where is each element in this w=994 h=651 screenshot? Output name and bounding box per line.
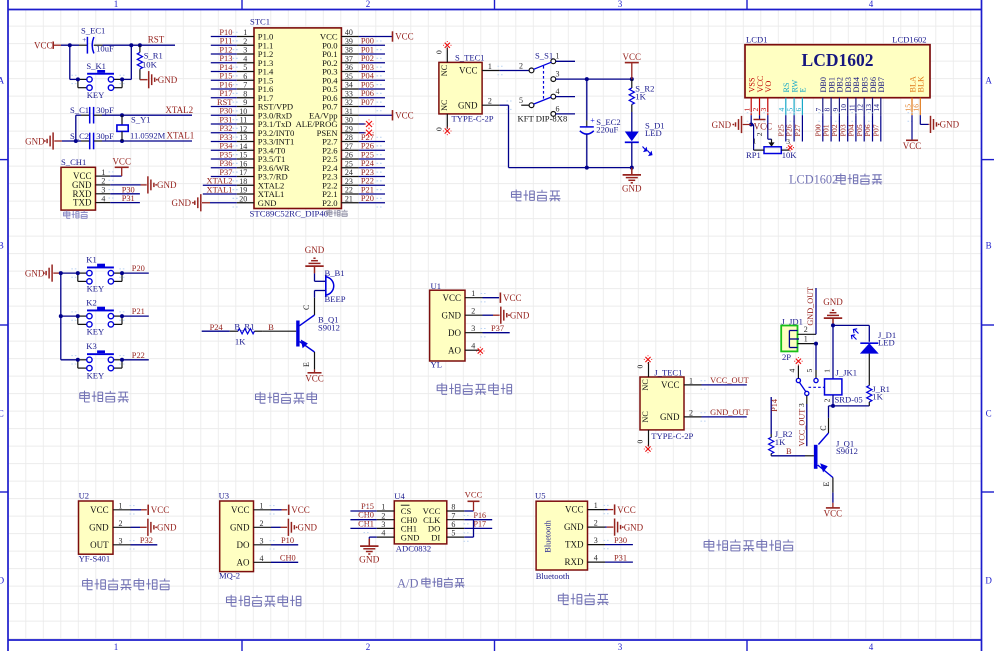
svg-text:VCC: VCC [754, 122, 773, 132]
svg-text:GND: GND [940, 120, 960, 130]
svg-text:21: 21 [345, 194, 353, 203]
svg-text:VCC: VCC [395, 32, 414, 42]
svg-text:LCD1602: LCD1602 [789, 173, 838, 187]
svg-text:0: 0 [636, 365, 645, 369]
svg-text:S9012: S9012 [318, 322, 340, 332]
svg-text:2: 2 [823, 398, 832, 402]
svg-text:20: 20 [239, 194, 247, 203]
svg-text:37: 37 [345, 54, 353, 63]
svg-text:220uF: 220uF [596, 125, 618, 135]
svg-text:GND: GND [298, 523, 318, 533]
svg-text:E: E [822, 482, 831, 487]
svg-text:A: A [985, 75, 992, 85]
svg-text:26: 26 [345, 151, 353, 160]
svg-text:17: 17 [239, 168, 247, 177]
svg-text:GND: GND [458, 100, 478, 110]
svg-text:P30: P30 [219, 107, 232, 116]
svg-text:VCC: VCC [903, 141, 922, 151]
svg-text:9: 9 [243, 98, 247, 107]
svg-text:6: 6 [556, 104, 560, 113]
svg-text:3: 3 [243, 46, 247, 55]
svg-text:P13: P13 [219, 54, 232, 63]
svg-text:P07: P07 [871, 124, 880, 136]
svg-text:D: D [0, 575, 5, 585]
svg-text:TXD: TXD [565, 540, 584, 550]
svg-text:5: 5 [805, 369, 814, 373]
svg-text:2: 2 [243, 37, 247, 46]
svg-text:1: 1 [471, 289, 475, 298]
svg-text:XTAL1: XTAL1 [167, 130, 195, 140]
svg-text:GND: GND [305, 245, 325, 255]
svg-text:P00: P00 [361, 37, 374, 46]
svg-text:RST: RST [217, 98, 232, 107]
svg-text:P31: P31 [219, 115, 232, 124]
svg-text:2: 2 [755, 132, 764, 136]
svg-text:3: 3 [786, 137, 790, 146]
svg-text:0: 0 [435, 50, 444, 54]
svg-text:P37: P37 [219, 168, 232, 177]
svg-text:GND: GND [823, 297, 843, 307]
svg-text:7: 7 [243, 81, 247, 90]
svg-text:1: 1 [823, 369, 832, 373]
svg-text:P01: P01 [361, 45, 374, 54]
svg-text:B_B1: B_B1 [325, 268, 345, 278]
svg-text:B_R1: B_R1 [234, 321, 254, 331]
svg-text:C: C [302, 305, 311, 310]
svg-text:P10: P10 [281, 536, 294, 545]
svg-text:38: 38 [345, 46, 353, 55]
svg-text:8: 8 [451, 503, 455, 512]
svg-text:P05: P05 [361, 80, 374, 89]
svg-text:27: 27 [345, 142, 353, 151]
svg-text:XTAL2: XTAL2 [207, 177, 233, 186]
svg-text:40: 40 [345, 28, 353, 37]
svg-text:B: B [0, 240, 4, 250]
svg-text:OUT: OUT [90, 540, 109, 550]
svg-text:P34: P34 [219, 142, 233, 151]
svg-text:LCD1602: LCD1602 [892, 34, 926, 44]
svg-text:B: B [268, 323, 274, 332]
svg-text:3: 3 [759, 108, 768, 112]
svg-text:3: 3 [471, 324, 475, 333]
svg-text:BEEP: BEEP [325, 294, 346, 304]
svg-text:VCC: VCC [442, 293, 461, 303]
svg-text:29: 29 [345, 124, 353, 133]
svg-text:GND: GND [712, 120, 732, 130]
svg-text:KEY: KEY [87, 370, 105, 380]
svg-text:1: 1 [804, 334, 808, 343]
svg-text:P17: P17 [474, 520, 486, 529]
svg-text:Bluetooth: Bluetooth [544, 520, 553, 552]
svg-text:DO: DO [237, 540, 250, 550]
svg-text:DB7: DB7 [877, 77, 886, 92]
svg-text:14: 14 [872, 104, 881, 112]
svg-text:2: 2 [488, 97, 492, 106]
svg-text:VCC: VCC [395, 110, 414, 120]
svg-text:K2: K2 [86, 298, 97, 308]
svg-text:2: 2 [366, 0, 371, 9]
svg-text:A: A [0, 75, 5, 85]
svg-text:P12: P12 [219, 45, 232, 54]
svg-text:10: 10 [239, 107, 247, 116]
svg-text:P25: P25 [361, 150, 374, 159]
svg-text:13: 13 [239, 133, 247, 142]
svg-text:23: 23 [345, 177, 353, 186]
svg-text:U2: U2 [79, 491, 90, 501]
svg-text:8: 8 [243, 89, 247, 98]
svg-text:GND: GND [660, 412, 680, 422]
svg-text:ADC0832: ADC0832 [396, 543, 431, 553]
svg-text:0: 0 [636, 440, 645, 444]
svg-text:GND_OUT: GND_OUT [806, 287, 815, 326]
svg-text:E: E [302, 362, 311, 367]
svg-text:P24: P24 [210, 323, 224, 332]
svg-text:P30: P30 [122, 185, 135, 194]
svg-text:GND: GND [172, 198, 192, 208]
svg-text:3: 3 [101, 186, 105, 195]
svg-text:SRD-05: SRD-05 [835, 395, 863, 405]
svg-text:P20: P20 [132, 264, 145, 273]
svg-text:NC: NC [440, 64, 449, 76]
svg-text:2: 2 [366, 642, 371, 651]
svg-text:6: 6 [451, 520, 455, 529]
svg-text:S_S1: S_S1 [535, 51, 553, 61]
svg-text:K3: K3 [86, 341, 97, 351]
svg-text:VCC: VCC [151, 505, 170, 515]
svg-text:VCC_OUT: VCC_OUT [798, 409, 807, 447]
svg-text:1: 1 [556, 52, 560, 61]
svg-text:VCC: VCC [565, 505, 584, 515]
svg-text:P10: P10 [219, 28, 232, 37]
svg-text:C: C [0, 408, 4, 418]
svg-text:16: 16 [912, 104, 921, 112]
svg-text:VCC: VCC [623, 52, 642, 62]
svg-text:E: E [799, 87, 808, 92]
svg-text:BLK: BLK [917, 76, 926, 92]
svg-text:12: 12 [239, 124, 247, 133]
svg-text:+: + [590, 116, 595, 125]
svg-text:P15: P15 [219, 72, 232, 81]
svg-text:1K: 1K [635, 92, 646, 102]
svg-text:1: 1 [689, 376, 693, 385]
svg-text:GND: GND [258, 198, 277, 208]
svg-text:VCC: VCC [112, 157, 131, 167]
svg-text:2: 2 [471, 307, 475, 316]
svg-text:LCD1602: LCD1602 [802, 50, 874, 70]
svg-text:5: 5 [243, 63, 247, 72]
svg-text:2: 2 [519, 61, 523, 70]
svg-text:GND: GND [157, 523, 177, 533]
svg-text:1: 1 [101, 168, 105, 177]
svg-text:YF-S401: YF-S401 [79, 554, 111, 564]
svg-text:GND: GND [359, 556, 380, 566]
svg-text:DO: DO [448, 328, 461, 338]
svg-text:AO: AO [448, 345, 461, 355]
svg-text:1: 1 [753, 137, 757, 146]
svg-text:4: 4 [869, 0, 874, 9]
svg-text:AO: AO [237, 557, 250, 567]
svg-text:P11: P11 [220, 37, 233, 46]
svg-text:XTAL2: XTAL2 [165, 105, 193, 115]
svg-text:2: 2 [381, 511, 385, 520]
svg-text:VCC: VCC [231, 505, 250, 515]
svg-text:31: 31 [345, 107, 353, 116]
svg-text:P33: P33 [219, 133, 232, 142]
svg-text:P16: P16 [219, 80, 232, 89]
svg-text:11.0592M: 11.0592M [130, 130, 166, 140]
svg-text:J_JK1: J_JK1 [836, 368, 858, 378]
svg-text:GND_OUT: GND_OUT [710, 408, 750, 417]
svg-text:J_TEC1: J_TEC1 [654, 367, 682, 377]
svg-text:3: 3 [381, 520, 385, 529]
svg-text:NC: NC [641, 411, 650, 423]
svg-text:P22: P22 [132, 351, 145, 360]
svg-text:4: 4 [869, 642, 874, 651]
svg-text:RXD: RXD [564, 557, 584, 567]
svg-text:4: 4 [594, 554, 598, 563]
svg-text:33: 33 [345, 89, 353, 98]
svg-text:VCC: VCC [661, 380, 680, 390]
svg-text:22: 22 [345, 186, 353, 195]
svg-text:LCD1: LCD1 [746, 34, 767, 44]
svg-text:VO: VO [764, 81, 773, 93]
svg-text:S_C2: S_C2 [70, 131, 89, 141]
svg-text:P07: P07 [361, 98, 374, 107]
svg-text:U5: U5 [535, 491, 546, 501]
svg-text:MQ-2: MQ-2 [219, 571, 240, 581]
svg-text:2: 2 [260, 519, 264, 528]
svg-text:P14: P14 [219, 63, 233, 72]
svg-text:GND: GND [158, 75, 178, 85]
svg-text:4: 4 [788, 369, 797, 373]
svg-text:P16: P16 [474, 511, 486, 520]
svg-text:S_Y1: S_Y1 [131, 114, 151, 124]
svg-text:39: 39 [345, 37, 353, 46]
svg-text:2: 2 [689, 408, 693, 417]
svg-text:2: 2 [594, 519, 598, 528]
svg-text:4: 4 [260, 554, 264, 563]
svg-text:VCC_OUT: VCC_OUT [710, 376, 749, 385]
svg-text:P23: P23 [361, 168, 374, 177]
svg-text:P31: P31 [614, 553, 627, 562]
svg-text:B: B [986, 240, 992, 250]
svg-text:1: 1 [119, 501, 123, 510]
svg-text:P04: P04 [361, 72, 375, 81]
svg-text:P32: P32 [140, 536, 153, 545]
svg-text:1: 1 [114, 0, 119, 9]
svg-text:P22: P22 [361, 177, 374, 186]
svg-text:C: C [819, 425, 828, 430]
svg-text:U1: U1 [431, 281, 442, 291]
svg-text:GND: GND [230, 522, 250, 532]
svg-text:STC1: STC1 [250, 16, 270, 26]
svg-text:P37: P37 [491, 324, 504, 333]
svg-text:XTAL1: XTAL1 [207, 185, 233, 194]
svg-text:GND: GND [442, 310, 462, 320]
svg-text:A/D: A/D [397, 576, 418, 590]
svg-text:4: 4 [381, 529, 385, 538]
svg-text:K1: K1 [86, 255, 97, 265]
svg-text:1K: 1K [235, 336, 246, 346]
svg-text:LED: LED [878, 338, 895, 348]
svg-text:DI: DI [431, 532, 440, 542]
svg-text:P17: P17 [219, 89, 232, 98]
svg-text:19: 19 [239, 186, 247, 195]
svg-text:VCC: VCC [465, 490, 483, 500]
svg-text:VCC: VCC [503, 293, 522, 303]
svg-text:VCC: VCC [617, 505, 636, 515]
svg-text:35: 35 [345, 72, 353, 81]
svg-text:30: 30 [345, 116, 353, 125]
svg-text:25: 25 [345, 159, 353, 168]
svg-text:30pF: 30pF [96, 105, 114, 115]
svg-text:3: 3 [119, 536, 123, 545]
svg-text:STC89C52RC_DIP40: STC89C52RC_DIP40 [250, 208, 329, 218]
svg-text:P06: P06 [361, 89, 374, 98]
svg-text:GND: GND [401, 532, 420, 542]
svg-text:P21: P21 [132, 307, 145, 316]
svg-text:S_CH1: S_CH1 [61, 157, 86, 167]
svg-text:1: 1 [488, 62, 492, 71]
svg-text:1: 1 [594, 501, 598, 510]
svg-text:1: 1 [381, 503, 385, 512]
svg-text:4: 4 [101, 194, 105, 203]
svg-text:YL: YL [431, 360, 442, 370]
svg-text:P21: P21 [361, 185, 374, 194]
svg-text:VCC: VCC [291, 505, 310, 515]
svg-text:P35: P35 [219, 150, 232, 159]
svg-text:2: 2 [101, 177, 105, 186]
svg-text:GND: GND [564, 522, 584, 532]
svg-text:GND: GND [89, 522, 109, 532]
svg-text:CH1: CH1 [358, 519, 374, 528]
svg-text:GND: GND [624, 522, 644, 532]
svg-text:RST: RST [148, 34, 165, 44]
svg-text:1: 1 [243, 28, 247, 37]
svg-text:VCC: VCC [34, 40, 53, 50]
svg-text:15: 15 [239, 151, 247, 160]
svg-text:TXD: TXD [73, 198, 92, 208]
svg-text:Bluetooth: Bluetooth [536, 571, 571, 581]
svg-text:P36: P36 [219, 159, 232, 168]
svg-text:2: 2 [119, 519, 123, 528]
svg-text:S_K1: S_K1 [86, 61, 106, 71]
svg-text:P31: P31 [122, 194, 135, 203]
svg-text:B: B [786, 447, 792, 456]
svg-text:RP1: RP1 [746, 150, 761, 160]
svg-text:28: 28 [345, 133, 353, 142]
svg-text:VCC: VCC [824, 509, 843, 519]
svg-text:GND: GND [157, 180, 177, 190]
svg-text:NC: NC [641, 379, 650, 391]
svg-text:C: C [986, 408, 992, 418]
svg-text:3: 3 [594, 536, 598, 545]
svg-text:1: 1 [114, 642, 119, 651]
svg-text:VCC: VCC [459, 66, 478, 76]
svg-text:3: 3 [618, 0, 623, 9]
svg-text:6: 6 [243, 72, 247, 81]
svg-text:10K: 10K [782, 150, 798, 160]
svg-text:4: 4 [556, 87, 560, 96]
svg-text:14: 14 [239, 142, 247, 151]
svg-text:D: D [985, 575, 992, 585]
svg-text:5: 5 [451, 529, 455, 538]
svg-text:GND: GND [25, 136, 45, 146]
svg-text:P2.0: P2.0 [322, 198, 338, 208]
svg-text:18: 18 [239, 177, 247, 186]
svg-text:P03: P03 [361, 63, 374, 72]
svg-text:P14: P14 [770, 399, 779, 412]
svg-text:3: 3 [618, 642, 623, 651]
svg-text:6: 6 [794, 108, 803, 112]
svg-text:0: 0 [435, 127, 444, 131]
svg-text:+: + [82, 36, 86, 44]
svg-text:3: 3 [260, 536, 264, 545]
svg-text:NC: NC [440, 99, 449, 111]
svg-text:KEY: KEY [87, 327, 105, 337]
svg-text:10K: 10K [142, 60, 158, 70]
svg-text:TYPE-C-2P: TYPE-C-2P [452, 114, 494, 124]
svg-text:36: 36 [345, 63, 353, 72]
svg-text:KEY: KEY [87, 90, 105, 100]
svg-text:GND: GND [622, 184, 642, 194]
svg-text:VCC: VCC [90, 505, 109, 515]
svg-text:S_TEC1: S_TEC1 [455, 52, 485, 62]
svg-text:CH0: CH0 [280, 554, 296, 563]
svg-text:KEY: KEY [87, 284, 105, 294]
svg-text:5: 5 [519, 96, 523, 105]
svg-text:1K: 1K [775, 437, 786, 447]
svg-text:P26: P26 [361, 142, 374, 151]
svg-text:11: 11 [240, 116, 248, 125]
svg-text:32: 32 [345, 98, 353, 107]
svg-text:2P: 2P [782, 352, 791, 362]
svg-text:P24: P24 [361, 159, 375, 168]
svg-text:7: 7 [451, 511, 455, 520]
svg-text:24: 24 [345, 168, 353, 177]
svg-text:CH0: CH0 [358, 511, 374, 520]
svg-text:3: 3 [556, 70, 560, 79]
svg-text:16: 16 [239, 159, 247, 168]
svg-text:S_C1: S_C1 [70, 105, 89, 115]
svg-text:30pF: 30pF [96, 131, 114, 141]
svg-text:P27: P27 [793, 124, 802, 136]
svg-text:KFT DIP-8X8: KFT DIP-8X8 [518, 114, 568, 124]
svg-text:1K: 1K [872, 392, 883, 402]
svg-text:4: 4 [471, 342, 475, 351]
svg-text:P20: P20 [361, 194, 374, 203]
svg-text:S9012: S9012 [836, 446, 858, 456]
svg-text:4: 4 [243, 54, 247, 63]
svg-text:U4: U4 [394, 491, 405, 501]
svg-text:P32: P32 [219, 124, 232, 133]
svg-text:1: 1 [260, 501, 264, 510]
svg-text:P02: P02 [361, 54, 374, 63]
svg-text:TYPE-C-2P: TYPE-C-2P [651, 431, 693, 441]
svg-text:GND: GND [510, 310, 530, 320]
svg-text:S_EC1: S_EC1 [81, 26, 105, 36]
svg-text:LED: LED [645, 128, 662, 138]
svg-text:34: 34 [345, 81, 353, 90]
svg-text:3: 3 [797, 403, 806, 407]
svg-text:VCC: VCC [305, 373, 324, 383]
svg-text:U3: U3 [219, 491, 230, 501]
svg-text:P30: P30 [614, 536, 627, 545]
svg-text:GND: GND [25, 268, 45, 278]
